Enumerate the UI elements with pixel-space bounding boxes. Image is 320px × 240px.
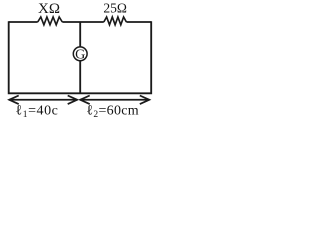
svg-text:XΩ: XΩ (38, 1, 60, 17)
dimension line l2 (right arrow) (80, 96, 149, 105)
resistor X (zigzag) (38, 17, 63, 25)
wire: galvanometer branch lower (79, 61, 81, 94)
dimension line l1 (left arrow) (9, 96, 77, 105)
wire: left edge, bottom wire, right edge (9, 21, 152, 93)
svg-text:25Ω: 25Ω (103, 1, 127, 16)
svg-text:ℓ1=40c: ℓ1=40c (16, 104, 59, 121)
resistor 25 ohm (zigzag) (104, 17, 127, 25)
svg-text:ℓ2=60cm: ℓ2=60cm (86, 104, 139, 121)
wire: top-right segment (126, 21, 151, 23)
wire: galvanometer branch upper (79, 22, 81, 47)
svg-text:G: G (75, 48, 85, 63)
wire: top-middle segment (62, 21, 104, 23)
galvanometer G (circle) (73, 47, 87, 61)
wire: top-left segment (9, 21, 38, 23)
